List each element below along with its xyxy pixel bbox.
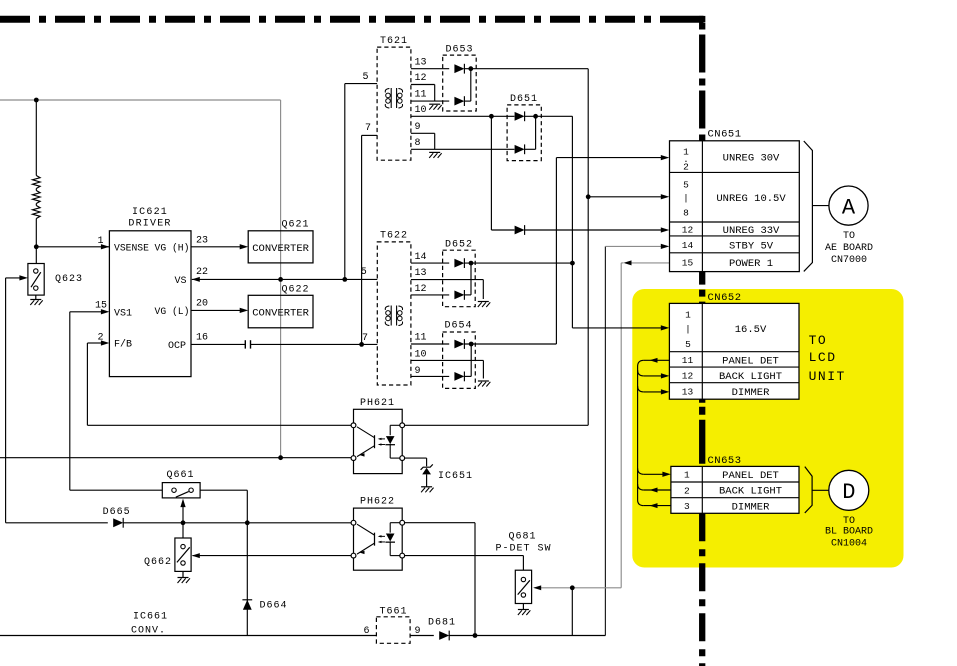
svg-text:13: 13 — [415, 268, 427, 279]
svg-text:PH621: PH621 — [360, 398, 395, 409]
svg-text:UNREG 33V: UNREG 33V — [723, 225, 780, 237]
svg-text:8: 8 — [683, 208, 689, 219]
svg-text:TO: TO — [843, 231, 855, 242]
svg-text:13: 13 — [682, 387, 694, 398]
svg-text:DRIVER: DRIVER — [128, 219, 171, 230]
svg-text:BACK LIGHT: BACK LIGHT — [719, 486, 782, 498]
svg-text:D654: D654 — [444, 320, 472, 331]
svg-text:D664: D664 — [259, 601, 287, 612]
svg-text:CN1004: CN1004 — [831, 539, 867, 550]
svg-text:CN653: CN653 — [708, 455, 742, 467]
svg-text:9: 9 — [415, 122, 421, 133]
svg-text:F/B: F/B — [114, 339, 132, 351]
svg-text:PH622: PH622 — [360, 496, 395, 507]
svg-text:CONVERTER: CONVERTER — [252, 243, 309, 255]
svg-text:23: 23 — [196, 235, 208, 246]
svg-text:22: 22 — [196, 267, 208, 278]
svg-text:AE BOARD: AE BOARD — [825, 243, 873, 254]
svg-text:1: 1 — [684, 470, 690, 481]
svg-text:CONVERTER: CONVERTER — [252, 307, 309, 319]
svg-text:D653: D653 — [445, 45, 473, 56]
svg-text:9: 9 — [415, 626, 421, 637]
svg-text:D652: D652 — [445, 239, 473, 250]
svg-text:1: 1 — [97, 236, 103, 247]
svg-text:STBY 5V: STBY 5V — [729, 240, 774, 252]
svg-text:Q681: Q681 — [508, 532, 536, 543]
svg-text:UNIT: UNIT — [809, 369, 846, 384]
svg-text:12: 12 — [682, 370, 694, 381]
svg-text:15: 15 — [682, 258, 694, 269]
svg-text:BL BOARD: BL BOARD — [825, 526, 873, 537]
svg-text:15: 15 — [95, 301, 107, 312]
svg-text:2: 2 — [97, 332, 103, 343]
svg-text:20: 20 — [196, 299, 208, 310]
svg-text:16: 16 — [196, 332, 208, 343]
svg-text:6: 6 — [363, 626, 369, 637]
svg-text:D681: D681 — [428, 618, 456, 629]
svg-text:Q662: Q662 — [144, 557, 172, 568]
svg-text:5: 5 — [362, 72, 368, 83]
svg-text:VG (L): VG (L) — [155, 306, 190, 317]
svg-text:5: 5 — [685, 339, 691, 350]
svg-text:7: 7 — [365, 123, 371, 134]
svg-text:13: 13 — [415, 58, 427, 69]
svg-text:CN652: CN652 — [708, 292, 742, 304]
svg-text:VSENSE: VSENSE — [114, 242, 149, 253]
svg-text:14: 14 — [682, 240, 694, 251]
svg-text:IC661: IC661 — [133, 612, 168, 623]
svg-text:UNREG 10.5V: UNREG 10.5V — [716, 193, 786, 205]
svg-text:CN7000: CN7000 — [831, 255, 867, 266]
svg-text:DIMMER: DIMMER — [732, 501, 771, 513]
svg-text:D665: D665 — [103, 507, 131, 518]
svg-text:VS: VS — [174, 276, 186, 287]
svg-text:CN651: CN651 — [708, 129, 742, 141]
svg-text:3: 3 — [684, 501, 690, 512]
svg-text:P-DET SW: P-DET SW — [495, 544, 551, 555]
svg-text:T661: T661 — [379, 606, 407, 617]
svg-text:5: 5 — [361, 267, 367, 278]
svg-text:VS1: VS1 — [114, 308, 132, 319]
svg-text:DIMMER: DIMMER — [732, 387, 771, 399]
svg-text:12: 12 — [682, 225, 694, 236]
svg-text:POWER 1: POWER 1 — [729, 258, 773, 270]
svg-text:9: 9 — [415, 366, 421, 377]
svg-text:10: 10 — [415, 350, 427, 361]
svg-text:Q621: Q621 — [281, 219, 309, 230]
svg-text:T622: T622 — [380, 230, 408, 241]
svg-text:12: 12 — [415, 284, 427, 295]
svg-text:2: 2 — [684, 485, 690, 496]
svg-text:14: 14 — [415, 252, 427, 263]
svg-text:IC651: IC651 — [438, 471, 473, 482]
svg-text:11: 11 — [415, 333, 427, 344]
svg-text:11: 11 — [682, 355, 694, 366]
svg-text:LCD: LCD — [809, 350, 837, 365]
svg-text:BACK LIGHT: BACK LIGHT — [719, 371, 782, 383]
svg-text:UNREG 30V: UNREG 30V — [723, 153, 780, 165]
svg-text:|: | — [685, 324, 691, 335]
svg-text:T621: T621 — [380, 36, 408, 47]
svg-text:VG (H): VG (H) — [155, 242, 190, 253]
svg-text:IC621: IC621 — [132, 207, 168, 218]
svg-text:PANEL DET: PANEL DET — [722, 355, 779, 367]
svg-text:|: | — [683, 193, 689, 204]
svg-text:Q622: Q622 — [281, 284, 309, 295]
svg-text:2: 2 — [683, 162, 689, 173]
svg-text:OCP: OCP — [168, 341, 186, 352]
svg-text:D: D — [842, 480, 855, 505]
svg-text:7: 7 — [362, 333, 368, 344]
svg-text:TO: TO — [809, 333, 828, 348]
svg-text:5: 5 — [683, 180, 689, 191]
svg-text:8: 8 — [415, 138, 421, 149]
svg-text:10: 10 — [415, 105, 427, 116]
svg-text:TO: TO — [843, 516, 855, 527]
svg-text:16.5V: 16.5V — [735, 324, 767, 336]
svg-text:Q623: Q623 — [55, 274, 83, 285]
svg-text:12: 12 — [415, 73, 427, 84]
svg-text:PANEL DET: PANEL DET — [722, 470, 779, 482]
svg-text:D651: D651 — [510, 94, 538, 105]
svg-text:1: 1 — [685, 310, 691, 321]
svg-text:11: 11 — [415, 90, 427, 101]
svg-text:A: A — [842, 195, 856, 220]
svg-text:Q661: Q661 — [166, 470, 194, 481]
